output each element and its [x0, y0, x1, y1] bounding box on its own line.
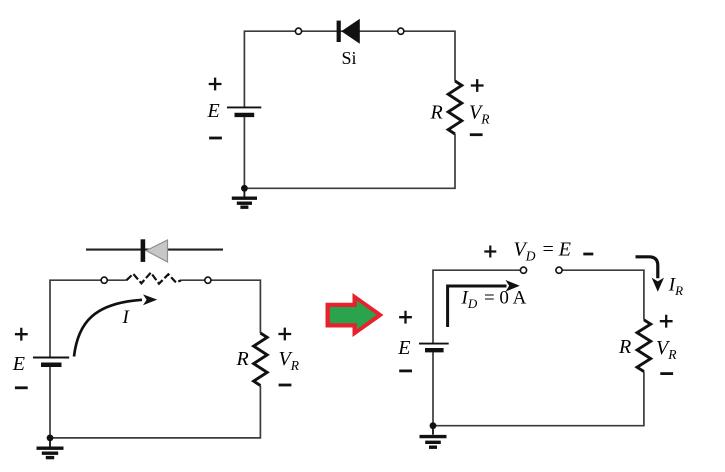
- junction dot (bottom-right circuit): [430, 422, 437, 429]
- label - of E (top circuit): [209, 137, 222, 140]
- current arrow I (curved): [74, 294, 157, 356]
- label - of VR (bottom-left): [279, 384, 292, 387]
- svg-text:E: E: [397, 337, 410, 359]
- faded diode cathode bar: [141, 239, 146, 262]
- faded reversed diode above (wire): [86, 249, 223, 251]
- resistor R (bottom-right circuit): [637, 320, 651, 372]
- label E (bottom-left): [12, 353, 25, 375]
- svg-text:R: R: [430, 102, 443, 124]
- svg-text:VR: VR: [469, 102, 490, 127]
- ground (bottom-left circuit): [37, 438, 64, 458]
- wire: bottom-left circuit loop: [50, 280, 260, 438]
- resistor R (bottom-left circuit): [254, 333, 268, 386]
- svg-text:E: E: [207, 100, 220, 122]
- label - of E (bottom-left): [15, 386, 28, 389]
- battery E (bottom-right circuit): [419, 344, 449, 351]
- junction dot (top circuit bottom-left): [241, 185, 248, 192]
- label - of VR (bottom-right): [660, 372, 673, 375]
- wire: top circuit loop: [244, 31, 455, 188]
- label Si: [341, 48, 356, 68]
- label VR (bottom-right): [656, 337, 677, 362]
- label R (bottom-right): [618, 336, 631, 358]
- battery E (top circuit): [227, 107, 261, 115]
- dashed zigzag (removed diode placeholder): [127, 273, 182, 284]
- ground (top circuit): [232, 188, 257, 207]
- label + of E (top circuit): [209, 78, 222, 91]
- svg-text:VR: VR: [279, 348, 300, 373]
- ID current path arrow (L-shape): [448, 280, 520, 327]
- terminal circle right of diode: [398, 28, 404, 34]
- label E (bottom-right): [397, 337, 410, 359]
- label VR (bottom-left): [279, 348, 300, 373]
- label VD = E: [514, 239, 571, 264]
- label - of VR (top circuit): [470, 133, 483, 136]
- label + of VR (top circuit): [471, 79, 484, 92]
- svg-text:Si: Si: [341, 48, 356, 68]
- svg-text:R: R: [236, 348, 249, 370]
- terminal circle left (bottom-right circuit): [520, 267, 526, 273]
- label IR: [668, 275, 683, 299]
- label ID = 0 A: [461, 288, 527, 312]
- label E (top circuit): [207, 100, 220, 122]
- label - of E (bottom-right): [399, 369, 412, 372]
- label - of VD: [583, 253, 593, 256]
- terminal circle right (bottom-right circuit): [556, 267, 562, 273]
- IR arrow (corner, pointing down): [636, 257, 665, 292]
- label VR (top circuit): [469, 102, 490, 127]
- big green arrow with red outline: [326, 293, 384, 337]
- battery E (bottom-left circuit): [33, 358, 69, 365]
- label + of VR (bottom-right): [660, 315, 673, 328]
- svg-text:ID = 0 A: ID = 0 A: [461, 288, 527, 312]
- wire: bottom-right circuit loop: [433, 270, 644, 426]
- svg-text:VD = E: VD = E: [514, 239, 571, 264]
- junction dot (bottom-left circuit): [47, 435, 54, 442]
- label + of E (bottom-right): [399, 311, 412, 324]
- svg-text:E: E: [12, 353, 25, 375]
- label R (bottom-left): [236, 348, 249, 370]
- terminal circle right (bottom-left circuit): [205, 277, 211, 283]
- svg-text:VR: VR: [656, 337, 677, 362]
- svg-text:IR: IR: [668, 275, 683, 299]
- diode Si (cathode bar + triangle pointing left): [337, 19, 360, 44]
- label R (top circuit): [430, 102, 443, 124]
- resistor R (top circuit): [448, 81, 462, 134]
- label I (current, bottom-left): [122, 307, 131, 328]
- svg-text:I: I: [122, 307, 131, 328]
- svg-text:R: R: [618, 336, 631, 358]
- label + of VR (bottom-left): [278, 328, 291, 341]
- faded diode gray triangle: [146, 240, 167, 262]
- label + of VD: [484, 246, 496, 258]
- label + of E (bottom-left): [15, 328, 28, 341]
- ground (bottom-right circuit): [420, 426, 447, 448]
- terminal circle left of diode: [295, 28, 301, 34]
- terminal circle left (bottom-left circuit): [101, 277, 107, 283]
